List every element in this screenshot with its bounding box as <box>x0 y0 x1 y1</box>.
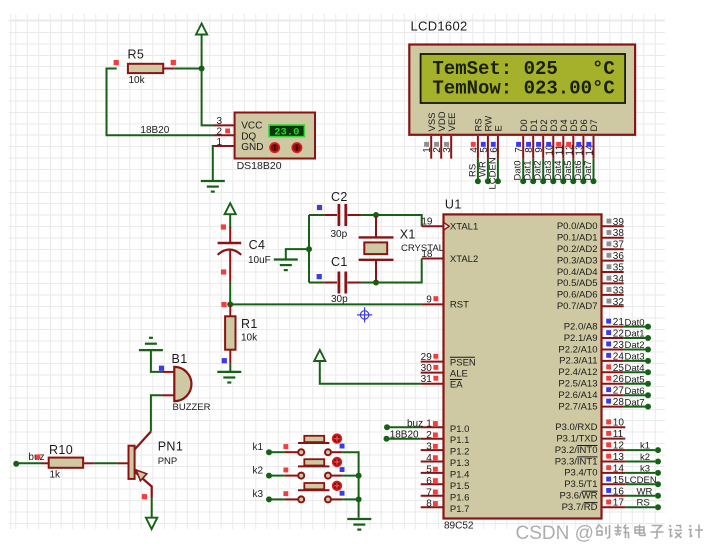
wire <box>624 394 646 396</box>
node <box>645 324 651 330</box>
wire LCD pin 6 <box>497 159 499 182</box>
svg-text:P2.4/A12: P2.4/A12 <box>558 367 597 378</box>
svg-text:P0.7/AD7: P0.7/AD7 <box>557 301 598 312</box>
svg-text:6: 6 <box>426 476 432 487</box>
node <box>645 404 651 410</box>
svg-text:38: 38 <box>613 228 625 239</box>
LCD pin D2 (9) <box>534 119 550 158</box>
wire <box>624 360 646 362</box>
logic state square LCD pin 4 <box>471 142 476 147</box>
svg-text:37: 37 <box>613 240 625 251</box>
LCD pin D1 (8) <box>524 119 540 158</box>
logic state square LCD pin 3 <box>444 142 449 147</box>
svg-text:P2.6/A14: P2.6/A14 <box>558 390 597 401</box>
node junction k3 <box>356 496 362 502</box>
logic state square RST node <box>221 302 226 307</box>
node <box>475 178 481 184</box>
svg-text:12: 12 <box>613 441 625 452</box>
svg-text:LCDEN: LCDEN <box>625 475 657 486</box>
wire LCD pin 12 <box>572 159 574 182</box>
logic state square C4 top <box>221 224 226 229</box>
svg-text:P1.3: P1.3 <box>450 458 470 469</box>
svg-text:P1.5: P1.5 <box>450 481 470 492</box>
svg-text:k2: k2 <box>640 452 650 463</box>
svg-text:WR: WR <box>637 486 653 497</box>
svg-text:4: 4 <box>426 453 432 464</box>
svg-text:18B20: 18B20 <box>390 430 419 441</box>
svg-text:P2.3/A11: P2.3/A11 <box>559 356 597 367</box>
node junction to ground <box>306 246 312 252</box>
svg-text:5: 5 <box>426 464 432 475</box>
logic state square LCD pin 11 <box>556 142 561 147</box>
svg-text:P1.0: P1.0 <box>450 424 470 435</box>
wire R10 to base <box>93 462 117 464</box>
svg-text:3: 3 <box>442 147 453 153</box>
wire <box>624 337 646 339</box>
origin marker <box>357 307 372 322</box>
pin P0.6/AD6 (33) <box>602 294 624 296</box>
wire k3 to common <box>342 498 358 500</box>
svg-text:P0.4/AD4: P0.4/AD4 <box>557 267 598 278</box>
svg-text:1: 1 <box>426 419 432 430</box>
wire RST net to U1 pin 9 <box>230 303 421 305</box>
temperature sensor DS18B20 <box>214 113 315 173</box>
power VCC arrow (EA) <box>314 350 325 361</box>
svg-text:P0.1/AD1: P0.1/AD1 <box>557 233 598 244</box>
pin ALE (30) <box>421 372 444 374</box>
svg-text:GND: GND <box>241 142 263 153</box>
wire k2 <box>269 475 285 477</box>
wire LCD pin 5 <box>487 159 489 182</box>
wire to ground <box>286 249 309 259</box>
svg-text:Dat7: Dat7 <box>583 160 594 180</box>
svg-text:18B20: 18B20 <box>140 125 169 136</box>
svg-text:Dat0: Dat0 <box>625 317 645 328</box>
svg-text:EA: EA <box>450 380 463 391</box>
ground (keys) <box>347 518 371 520</box>
svg-text:28: 28 <box>613 397 625 408</box>
svg-text:36: 36 <box>613 251 625 262</box>
svg-text:C2: C2 <box>331 190 348 204</box>
svg-text:P2.2/A10: P2.2/A10 <box>558 344 597 355</box>
wire GND pin to ground <box>213 146 215 181</box>
logic state square C1 <box>317 274 322 279</box>
logic state square LCD pin 7 <box>516 142 521 147</box>
svg-text:14: 14 <box>613 463 625 474</box>
logic state square k1 right <box>340 444 345 449</box>
svg-text:18: 18 <box>421 249 433 260</box>
node <box>655 493 661 499</box>
pin P2.7/A15 (28) <box>602 406 624 408</box>
pin P3.3/INT1 (13) <box>602 461 626 463</box>
svg-text:16: 16 <box>613 486 625 497</box>
pin P1.2 (3) <box>421 449 444 451</box>
svg-text:P3.5/T1: P3.5/T1 <box>564 479 597 490</box>
svg-text:P0.5/AD5: P0.5/AD5 <box>557 278 598 289</box>
pin P2.2/A10 (23) <box>602 349 624 351</box>
node (k3 wire end) <box>266 496 272 502</box>
svg-text:15: 15 <box>613 475 625 486</box>
svg-text:21: 21 <box>613 317 625 328</box>
svg-text:39: 39 <box>613 217 625 228</box>
push button k1 <box>285 434 342 455</box>
svg-text:3: 3 <box>426 442 432 453</box>
logic state square k2 right <box>340 467 345 472</box>
svg-text:P2.5/A13: P2.5/A13 <box>558 379 597 390</box>
wire C1 to XTAL2 <box>361 259 422 283</box>
wire R5 left down to DQ net <box>107 69 215 136</box>
ground (DS18B20) <box>201 180 225 182</box>
svg-text:22: 22 <box>613 329 625 340</box>
wire <box>624 326 646 328</box>
node junction k2 <box>356 473 362 479</box>
wire <box>625 495 655 497</box>
pin P1.5 (6) <box>421 483 444 485</box>
logic state square C2 <box>317 205 322 210</box>
LCD display LCD1602 <box>409 45 635 135</box>
power arrow (down, emitter) <box>146 518 157 529</box>
wire R5 right to junction <box>174 68 201 70</box>
svg-text:R5: R5 <box>128 48 145 62</box>
LCD pin D0 (7) <box>514 119 530 158</box>
logic state square buzzer <box>159 366 164 371</box>
svg-text:17: 17 <box>613 498 625 509</box>
svg-text:P3.3/INT1: P3.3/INT1 <box>555 456 598 467</box>
node <box>655 481 661 487</box>
wire <box>625 472 655 474</box>
node <box>655 470 661 476</box>
ground (C2/C1) <box>274 258 298 260</box>
logic state square LCD pin 9 <box>536 142 541 147</box>
ground (buzzer, inverted) <box>139 349 163 351</box>
transistor PN1 (PNP) <box>129 432 184 498</box>
node (18B20) <box>384 436 390 442</box>
svg-text:R10: R10 <box>49 443 73 457</box>
pin P1.3 (4) <box>421 461 444 463</box>
wire C4 to RST node <box>229 281 231 304</box>
svg-text:89C52: 89C52 <box>444 521 474 532</box>
node <box>655 447 661 453</box>
logic state square R1 bottom <box>222 358 227 363</box>
crystal X1 <box>359 216 444 282</box>
pin P0.5/AD5 (34) <box>602 282 624 284</box>
node <box>655 459 661 465</box>
node (k2 wire end) <box>266 473 272 479</box>
svg-text:10k: 10k <box>241 333 258 344</box>
wire <box>624 383 646 385</box>
svg-text:P1.2: P1.2 <box>450 447 470 458</box>
svg-text:33: 33 <box>613 285 625 296</box>
svg-text:1: 1 <box>216 137 222 148</box>
logic state square k2 left <box>283 468 288 473</box>
capacitor C2 (30p) <box>309 190 361 240</box>
node <box>530 178 536 184</box>
logic state square LCD pin 1 <box>424 142 429 147</box>
svg-text:P1.1: P1.1 <box>450 435 470 446</box>
svg-text:Dat2: Dat2 <box>625 340 645 351</box>
node <box>645 358 651 364</box>
wire ground to buzzer top pin <box>151 350 163 372</box>
svg-text:P3.2/INT0: P3.2/INT0 <box>555 445 598 456</box>
pin P0.4/AD4 (35) <box>602 271 624 273</box>
svg-text:Dat3: Dat3 <box>625 352 645 363</box>
svg-text:buz: buz <box>407 418 423 429</box>
node junction R5/DS18B20 VCC <box>199 66 205 72</box>
power VCC arrow above R5 <box>196 24 207 35</box>
svg-text:k1: k1 <box>640 441 650 452</box>
node <box>495 178 501 184</box>
logic state square C4 bottom <box>221 269 226 274</box>
svg-text:25: 25 <box>613 363 625 374</box>
logic state square LCD pin 2 <box>434 142 439 147</box>
power VCC arrow above C4 <box>225 203 236 214</box>
svg-text:26: 26 <box>613 374 625 385</box>
svg-text:k2: k2 <box>253 465 264 476</box>
svg-text:R1: R1 <box>241 317 258 331</box>
LCD pin D3 (10) <box>544 119 560 158</box>
svg-text:10: 10 <box>613 418 625 429</box>
wire <box>625 449 655 451</box>
pin P0.3/AD3 (36) <box>602 260 624 262</box>
wire node to R10 <box>16 462 41 465</box>
svg-text:P3.0/RXD: P3.0/RXD <box>555 422 597 433</box>
logic state square R5 right <box>171 60 176 65</box>
svg-text:10uF: 10uF <box>248 255 271 266</box>
node (k1 wire end) <box>266 449 272 455</box>
LCD pin VDD (2) <box>432 111 448 158</box>
svg-text:31: 31 <box>421 374 433 385</box>
svg-text:VCC: VCC <box>241 120 262 131</box>
logic state square k3 left <box>283 491 288 496</box>
svg-text:P3.6/WR: P3.6/WR <box>559 491 597 502</box>
resistor R5 <box>107 48 175 86</box>
wire LCD pin 7 <box>522 159 524 182</box>
wire LCD pin 10 <box>552 159 554 182</box>
node <box>645 347 651 353</box>
svg-text:P2.0/A8: P2.0/A8 <box>564 321 598 332</box>
svg-text:7: 7 <box>426 487 432 498</box>
logic state square k3 right <box>340 491 345 496</box>
wire 18B20 to U1 P1.1 <box>387 438 421 440</box>
logic state square LCD pin 10 <box>546 142 551 147</box>
LCD pin RW (5) <box>479 116 495 159</box>
logic state square LCD pin 6 <box>491 142 496 147</box>
wire <box>229 215 231 229</box>
wire <box>624 371 646 373</box>
logic state square LCD pin 14 <box>586 142 591 147</box>
pin P2.3/A11 (24) <box>602 360 624 362</box>
svg-text:24: 24 <box>613 351 625 362</box>
svg-text:ALE: ALE <box>450 368 468 379</box>
buzzer B1 <box>162 352 210 413</box>
wire emitter to power <box>151 498 153 518</box>
pin P1.4 (5) <box>421 472 444 474</box>
svg-text:BUZZER: BUZZER <box>173 402 211 413</box>
svg-text:P3.4/T0: P3.4/T0 <box>564 468 597 479</box>
svg-text:XTAL2: XTAL2 <box>450 254 478 265</box>
capacitor C4 (polarized 10uF) <box>218 227 271 281</box>
LCD pin D7 (14) <box>585 119 601 158</box>
pin P3.2/INT0 (12) <box>602 449 626 451</box>
pin P3.6/WR (16) <box>602 495 626 497</box>
node <box>540 178 546 184</box>
logic state square LCD pin 12 <box>566 142 571 147</box>
svg-text:RS: RS <box>637 498 650 509</box>
logic state square emitter <box>142 494 147 499</box>
wire LCD pin 14 <box>593 159 595 182</box>
pin P2.5/A13 (26) <box>602 383 624 385</box>
LCD pin VSS (1) <box>422 112 438 158</box>
svg-text:Dat5: Dat5 <box>625 374 645 385</box>
svg-text:Dat1: Dat1 <box>625 329 645 340</box>
svg-text:30: 30 <box>421 363 433 374</box>
svg-text:DQ: DQ <box>241 132 256 143</box>
node <box>570 178 576 184</box>
svg-text:TemNow: 023.00°C: TemNow: 023.00°C <box>432 78 614 100</box>
svg-text:PN1: PN1 <box>158 439 184 453</box>
wire LCD pin 13 <box>582 159 584 182</box>
pin P2.0/A8 (21) <box>602 326 624 328</box>
wire LCD pin 9 <box>542 159 544 182</box>
svg-text:P0.3/AD3: P0.3/AD3 <box>557 255 598 266</box>
wire buz to U1 P1.0 <box>387 426 421 428</box>
pin P2.1/A9 (22) <box>602 337 624 339</box>
node <box>645 392 651 398</box>
wire <box>625 461 655 463</box>
svg-text:k1: k1 <box>253 442 264 453</box>
node junction RST <box>227 301 233 307</box>
svg-text:PSEN: PSEN <box>450 357 476 368</box>
pin P1.7 (8) <box>421 506 444 508</box>
wire k2 to common <box>342 475 358 477</box>
svg-text:Dat7: Dat7 <box>625 397 645 408</box>
svg-text:30p: 30p <box>331 229 348 240</box>
node junction C1/X1 <box>373 280 379 286</box>
svg-text:P1.4: P1.4 <box>450 470 470 481</box>
svg-text:P1.7: P1.7 <box>450 504 470 515</box>
pin P3.0/RXD (10) <box>602 426 626 428</box>
logic state square DQ <box>225 129 230 134</box>
wire C2 to XTAL1 <box>361 215 422 226</box>
pin P0.1/AD1 (38) <box>602 237 624 239</box>
svg-text:23.0: 23.0 <box>274 126 299 138</box>
node <box>580 178 586 184</box>
svg-text:P2.1/A9: P2.1/A9 <box>564 333 598 344</box>
pin P2.4/A12 (25) <box>602 371 624 373</box>
svg-text:LCD1602: LCD1602 <box>411 19 468 34</box>
svg-text:k3: k3 <box>640 463 650 474</box>
svg-text:P0.2/AD2: P0.2/AD2 <box>557 244 598 255</box>
capacitor C1 (30p) <box>309 255 361 305</box>
wire C2/C1 left branch <box>308 215 310 283</box>
svg-text:8: 8 <box>426 499 432 510</box>
node <box>645 369 651 375</box>
svg-text:13: 13 <box>613 452 625 463</box>
LCD pin D6 (13) <box>574 119 590 158</box>
svg-text:P3.7/RD: P3.7/RD <box>562 502 598 513</box>
pin P3.5/T1 (15) <box>602 483 626 485</box>
svg-text:CSDN @: CSDN @ <box>516 523 594 544</box>
node (buz wire end) <box>13 461 19 467</box>
logic state square k1 left <box>283 444 288 449</box>
svg-text:P2.7/A15: P2.7/A15 <box>558 401 597 412</box>
wire <box>202 35 215 126</box>
wire <box>624 406 646 408</box>
svg-text:k3: k3 <box>253 489 264 500</box>
pin P0.2/AD2 (37) <box>602 248 624 250</box>
logic state square buz <box>36 454 41 459</box>
node <box>591 178 597 184</box>
svg-text:B1: B1 <box>172 352 188 366</box>
logic state square R5 left <box>114 60 119 65</box>
pin P0.7/AD7 (32) <box>602 305 624 307</box>
pin P3.1/TXD (11) <box>602 438 626 440</box>
svg-text:10k: 10k <box>129 75 146 86</box>
svg-text:C4: C4 <box>249 238 266 252</box>
svg-text:35: 35 <box>613 263 625 274</box>
resistor R1 <box>225 304 258 363</box>
wire k1 to common <box>342 452 358 518</box>
wire EA to U1 pin 31 <box>320 361 421 383</box>
svg-text:P3.1/TXD: P3.1/TXD <box>556 433 597 444</box>
resistor R10 <box>41 443 93 480</box>
svg-text:U1: U1 <box>445 197 462 211</box>
pin P0.0/AD0 (39) <box>602 225 624 227</box>
svg-text:PNP: PNP <box>158 456 178 467</box>
node <box>520 178 526 184</box>
svg-text:RST: RST <box>450 300 469 311</box>
node <box>655 504 661 510</box>
svg-text:X1: X1 <box>400 228 416 242</box>
wire <box>625 506 655 508</box>
svg-text:XTAL1: XTAL1 <box>450 222 478 233</box>
svg-text:P1.6: P1.6 <box>450 492 470 503</box>
wire R1 to ground <box>229 363 231 372</box>
LCD pin VEE (3) <box>442 112 458 158</box>
pin P1.6 (7) <box>421 495 444 497</box>
svg-text:34: 34 <box>613 274 625 285</box>
node <box>550 178 556 184</box>
wire LCD pin 4 <box>477 159 479 182</box>
wire k3 <box>269 498 285 500</box>
svg-text:2: 2 <box>426 430 432 441</box>
svg-text:30p: 30p <box>331 294 348 305</box>
LCD pin E (6) <box>489 125 505 159</box>
pin P3.4/T0 (14) <box>602 472 626 474</box>
svg-text:P0.6/AD6: P0.6/AD6 <box>557 290 598 301</box>
wire k1 <box>269 451 285 453</box>
LCD pin D5 (12) <box>564 119 580 158</box>
svg-text:27: 27 <box>613 386 625 397</box>
svg-text:D7: D7 <box>589 119 600 131</box>
microcontroller U1 89C52 <box>444 214 602 518</box>
svg-text:DS18B20: DS18B20 <box>237 160 282 172</box>
node <box>645 381 651 387</box>
svg-text:2: 2 <box>216 126 222 137</box>
wire LCD pin 11 <box>562 159 564 182</box>
svg-text:E: E <box>494 125 505 131</box>
svg-text:6: 6 <box>489 147 500 153</box>
push button k3 <box>285 481 342 502</box>
node <box>560 178 566 184</box>
svg-text:32: 32 <box>613 297 625 308</box>
svg-text:23: 23 <box>613 340 625 351</box>
node <box>645 335 651 341</box>
pin P3.7/RD (17) <box>602 506 626 508</box>
svg-text:19: 19 <box>421 216 433 227</box>
node junction C2/X1 <box>373 212 379 218</box>
svg-text:Dat4: Dat4 <box>625 363 645 374</box>
